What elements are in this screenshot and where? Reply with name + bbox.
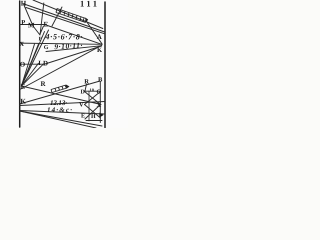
wire plus vertical xyxy=(40,3,44,35)
svg-text:9·10·11·: 9·10·11· xyxy=(54,41,83,51)
band ruler hatched upper xyxy=(56,9,88,23)
wire fan E2 line1 xyxy=(21,44,34,86)
wire K to B long xyxy=(20,81,100,104)
label P lattice xyxy=(99,113,103,118)
svg-text:R: R xyxy=(84,79,89,86)
svg-text:K: K xyxy=(20,98,26,106)
svg-text:M: M xyxy=(28,22,35,30)
wire middle thin vertical xyxy=(88,91,90,121)
wire E short to V xyxy=(40,26,44,35)
wire E to apex xyxy=(46,25,102,44)
svg-text:G: G xyxy=(96,90,101,96)
wire steep apex from band xyxy=(87,22,103,45)
wire fan E2 line3 xyxy=(21,32,44,87)
wire K fan low2 xyxy=(20,111,96,128)
wire lower diag 2 xyxy=(85,105,101,120)
wire D G horizontal xyxy=(84,90,101,92)
wire K fan flat xyxy=(20,102,105,106)
wire K fan low1 xyxy=(20,111,102,126)
svg-text:P: P xyxy=(21,19,25,26)
svg-text:H: H xyxy=(21,0,27,8)
wire steep band stylus xyxy=(52,7,62,26)
svg-text:G: G xyxy=(44,45,49,51)
wire P M E horizontal xyxy=(20,24,46,26)
band ruler hatched lower small xyxy=(51,85,70,93)
svg-text:D: D xyxy=(43,60,48,68)
wire H to right tick xyxy=(24,4,105,32)
svg-text:10: 10 xyxy=(89,88,94,93)
wire K fan mid xyxy=(20,111,105,115)
wire E2 to X long xyxy=(21,86,101,105)
wire X diag 1 xyxy=(85,92,101,105)
svg-text:111: 111 xyxy=(80,0,97,9)
svg-text:E: E xyxy=(81,114,85,120)
svg-text:14·&c·: 14·&c· xyxy=(47,106,72,114)
wire lower nine to apex xyxy=(46,46,101,52)
wire R down stroke xyxy=(85,84,87,91)
wire bottom horizontal xyxy=(86,120,102,122)
svg-text:H: H xyxy=(91,114,96,120)
wire right vertical pillar xyxy=(104,2,106,128)
wire band top edge long xyxy=(33,0,103,29)
wire B vertical xyxy=(99,82,101,123)
svg-text:E: E xyxy=(21,83,26,91)
wire left vertical pillar xyxy=(19,1,21,127)
wire lower diag 1 xyxy=(85,105,101,119)
wire fan E2 line2 xyxy=(21,44,38,86)
wire O I D horizontal xyxy=(20,63,45,65)
wire x line to apex xyxy=(20,43,102,44)
wire X diag 2 xyxy=(85,92,101,105)
svg-text:V: V xyxy=(79,102,84,109)
svg-text:X: X xyxy=(96,102,101,109)
wire E2 to D chord xyxy=(21,64,43,86)
wire R to apex xyxy=(21,45,102,89)
wire H to V point xyxy=(24,4,34,26)
wire below band second xyxy=(26,8,105,34)
svg-text:K: K xyxy=(97,47,102,54)
wire E2 to I chord xyxy=(21,63,38,86)
svg-text:O: O xyxy=(20,61,26,69)
wire D to apex xyxy=(45,46,102,64)
svg-text:E: E xyxy=(43,21,48,29)
svg-text:D: D xyxy=(80,90,85,96)
svg-text:B: B xyxy=(98,77,103,84)
wire fan E2 line4 xyxy=(21,30,48,86)
svg-text:4·5·6·7·8·: 4·5·6·7·8· xyxy=(44,32,82,41)
svg-text:A: A xyxy=(97,33,102,41)
